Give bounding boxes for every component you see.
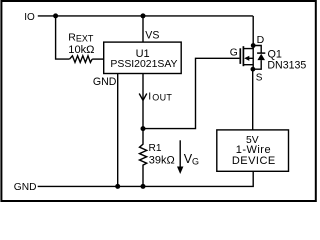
- svg-text:1-Wire: 1-Wire: [236, 144, 271, 156]
- svg-text:OUT: OUT: [152, 93, 172, 103]
- junction dot R1 at rail: [141, 184, 146, 189]
- junction dot source: [251, 67, 256, 72]
- arrow VG: [179, 140, 181, 168]
- wire gate branch: [143, 58, 239, 128]
- wire source to device: [252, 69, 254, 130]
- wire U1 GND lead down: [117, 74, 119, 187]
- wire device to GND rail: [38, 171, 254, 186]
- wire REXT to U1: [92, 58, 104, 60]
- wire drain from top rail: [252, 16, 254, 46]
- resistor REXT: [70, 56, 93, 63]
- svg-text:DN3135: DN3135: [267, 60, 306, 72]
- svg-text:PSSI2021SAY: PSSI2021SAY: [110, 59, 177, 70]
- svg-text:10kΩ: 10kΩ: [68, 44, 94, 56]
- diode body of Q1: [253, 46, 265, 70]
- svg-text:GND: GND: [14, 182, 37, 193]
- svg-text:GND: GND: [93, 76, 117, 88]
- svg-text:S: S: [256, 72, 263, 83]
- junction dot R1/gate: [141, 126, 146, 131]
- svg-text:D: D: [257, 34, 265, 46]
- 1-Wire device box: [217, 130, 289, 171]
- junction dot at VS branch: [141, 13, 146, 18]
- junction dot drain: [251, 43, 256, 48]
- svg-text:U1: U1: [136, 48, 150, 60]
- svg-text:G: G: [230, 48, 238, 59]
- svg-text:I: I: [148, 91, 151, 103]
- svg-text:VS: VS: [145, 30, 159, 42]
- wire REXT branch down: [56, 16, 70, 59]
- wire IO top rail: [38, 15, 253, 17]
- arrow IOUT: [139, 94, 147, 101]
- junction dot at IO/REXT branch: [53, 13, 58, 18]
- resistor R1: [140, 129, 147, 187]
- wire VS lead: [142, 16, 144, 42]
- transistor Q1: [230, 46, 254, 70]
- wire IOUT lead: [142, 74, 144, 129]
- svg-text:R1: R1: [149, 143, 162, 154]
- svg-text:G: G: [192, 156, 199, 166]
- svg-text:EXT: EXT: [76, 34, 94, 44]
- svg-text:39kΩ: 39kΩ: [149, 155, 175, 167]
- junction dot U1 GND at rail: [115, 184, 120, 189]
- svg-text:IO: IO: [24, 12, 35, 23]
- op-amp U1 box: [104, 42, 182, 73]
- svg-text:DEVICE: DEVICE: [232, 155, 276, 167]
